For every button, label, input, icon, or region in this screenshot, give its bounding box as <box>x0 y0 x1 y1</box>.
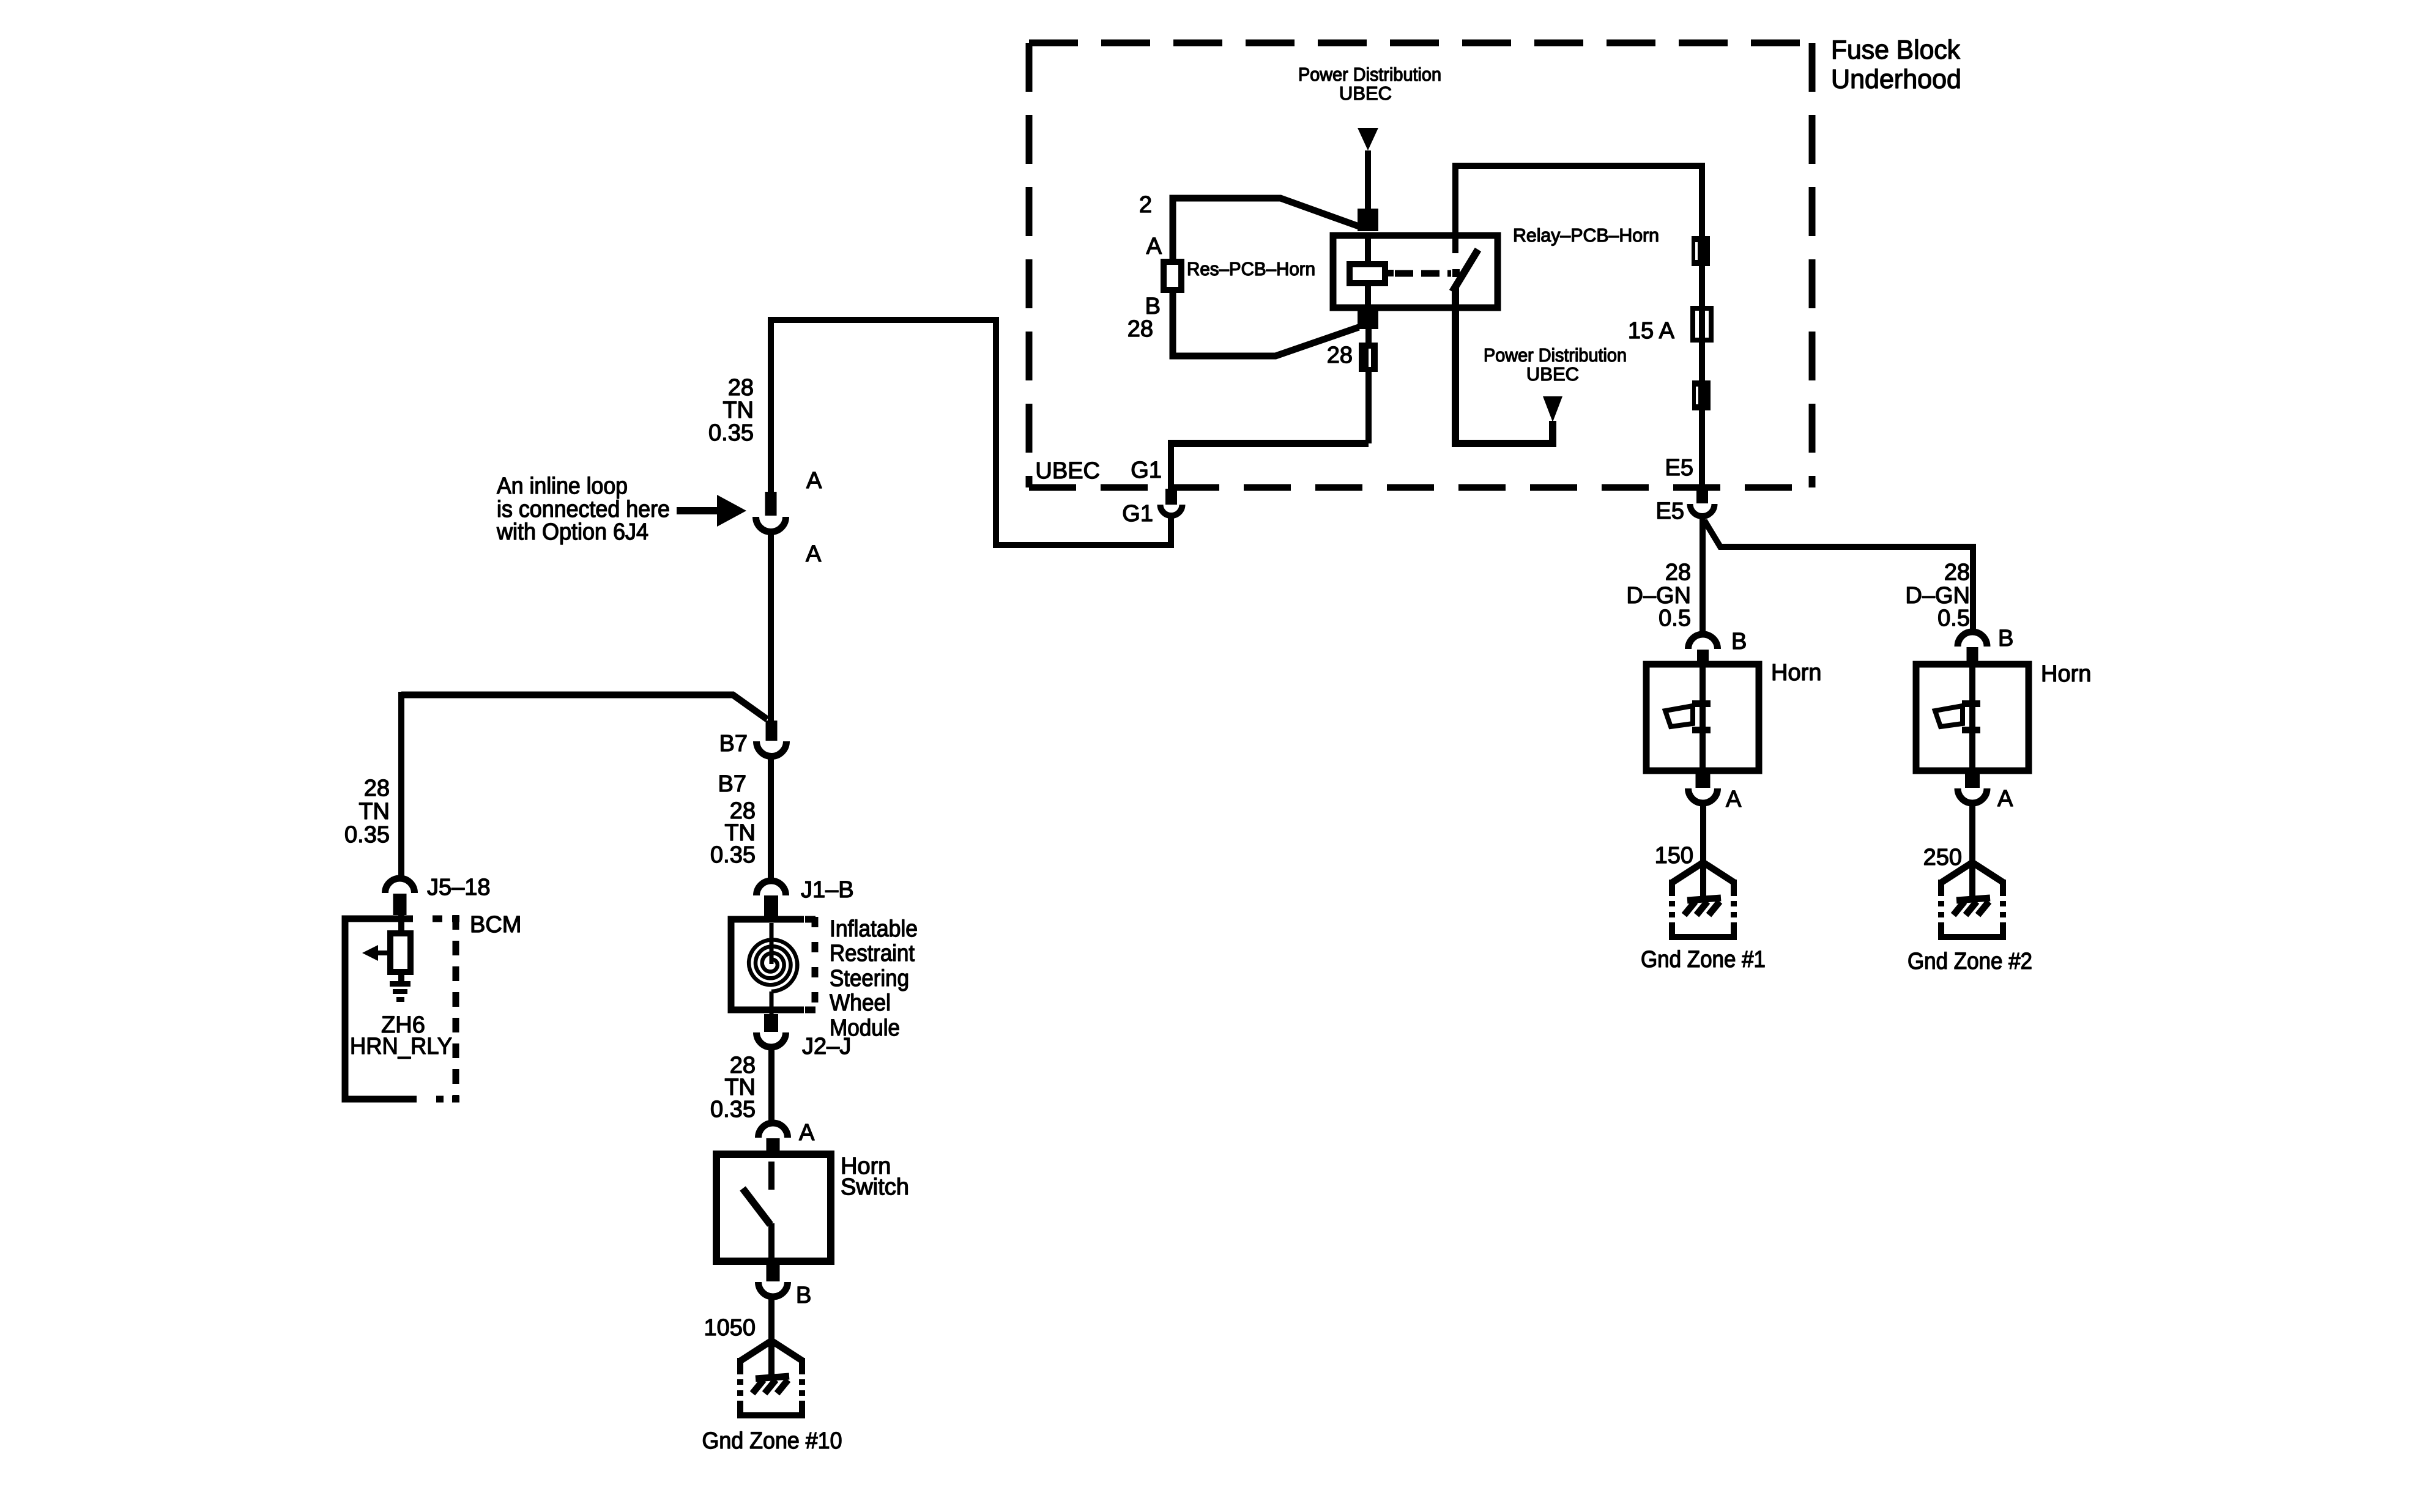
svg-text:UBEC: UBEC <box>1526 363 1579 385</box>
svg-text:0.35: 0.35 <box>708 420 754 446</box>
svg-text:Inflatable: Inflatable <box>830 916 918 942</box>
svg-text:J5–18: J5–18 <box>427 875 491 900</box>
svg-text:2: 2 <box>1139 192 1152 218</box>
svg-text:UBEC: UBEC <box>1035 458 1100 484</box>
svg-text:Gnd Zone #1: Gnd Zone #1 <box>1641 947 1766 973</box>
svg-text:B: B <box>1998 626 2013 651</box>
svg-text:Underhood: Underhood <box>1831 64 1961 94</box>
svg-text:Relay–PCB–Horn: Relay–PCB–Horn <box>1513 224 1659 246</box>
svg-text:A: A <box>1726 787 1742 812</box>
svg-text:0.35: 0.35 <box>710 1097 756 1122</box>
svg-text:150: 150 <box>1655 843 1693 869</box>
svg-text:BCM: BCM <box>470 912 521 938</box>
svg-text:UBEC: UBEC <box>1339 83 1392 104</box>
svg-text:15 A: 15 A <box>1628 318 1675 344</box>
svg-text:Power Distribution: Power Distribution <box>1298 64 1441 85</box>
svg-text:250: 250 <box>1923 845 1962 870</box>
svg-text:A: A <box>1146 234 1162 259</box>
svg-text:28: 28 <box>1327 343 1353 368</box>
svg-text:D–GN: D–GN <box>1905 583 1970 609</box>
svg-text:Power Distribution: Power Distribution <box>1484 344 1627 366</box>
svg-text:0.5: 0.5 <box>1659 606 1691 631</box>
svg-text:A: A <box>806 541 822 567</box>
svg-text:A: A <box>806 468 822 494</box>
svg-text:Horn: Horn <box>1771 660 1821 686</box>
svg-text:28: 28 <box>1944 560 1970 585</box>
svg-text:Switch: Switch <box>841 1174 909 1200</box>
svg-text:Wheel: Wheel <box>830 990 891 1016</box>
svg-text:28: 28 <box>364 776 390 801</box>
svg-text:Gnd Zone #2: Gnd Zone #2 <box>1908 949 2032 974</box>
svg-text:Steering: Steering <box>830 966 909 991</box>
svg-text:B: B <box>1145 294 1161 319</box>
svg-text:Restraint: Restraint <box>830 941 915 966</box>
svg-text:B: B <box>796 1283 811 1308</box>
svg-text:TN: TN <box>358 799 390 825</box>
svg-text:J1–B: J1–B <box>801 877 854 903</box>
svg-text:0.35: 0.35 <box>344 822 390 848</box>
svg-text:0.35: 0.35 <box>710 842 756 868</box>
svg-text:B7: B7 <box>718 771 746 797</box>
svg-text:28: 28 <box>1127 316 1153 342</box>
svg-text:A: A <box>799 1120 815 1146</box>
svg-text:D–GN: D–GN <box>1626 583 1691 609</box>
svg-text:Horn: Horn <box>2041 661 2091 687</box>
svg-text:J2–J: J2–J <box>802 1034 851 1059</box>
svg-text:28: 28 <box>1665 560 1691 585</box>
svg-text:28: 28 <box>728 375 754 401</box>
svg-text:0.5: 0.5 <box>1937 606 1970 631</box>
svg-text:1050: 1050 <box>704 1315 756 1341</box>
svg-text:TN: TN <box>723 398 754 423</box>
svg-text:Gnd Zone #10: Gnd Zone #10 <box>702 1428 842 1454</box>
svg-text:Fuse Block: Fuse Block <box>1831 35 1961 65</box>
svg-text:B7: B7 <box>719 731 748 757</box>
svg-text:HRN_RLY: HRN_RLY <box>350 1034 452 1059</box>
svg-text:An inline loop: An inline loop <box>497 473 628 499</box>
svg-text:E5: E5 <box>1656 498 1684 524</box>
svg-text:with Option 6J4: with Option 6J4 <box>496 519 648 545</box>
svg-text:E5: E5 <box>1665 455 1693 481</box>
svg-text:Res–PCB–Horn: Res–PCB–Horn <box>1187 258 1315 280</box>
svg-text:B: B <box>1731 629 1747 654</box>
svg-text:is connected here: is connected here <box>497 497 670 522</box>
svg-text:A: A <box>1997 786 2013 812</box>
svg-text:G1: G1 <box>1122 501 1153 527</box>
svg-text:G1: G1 <box>1131 458 1162 483</box>
